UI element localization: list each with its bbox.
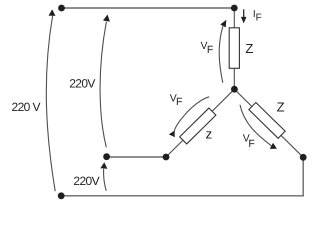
- svg-text:F: F: [176, 96, 182, 108]
- voltage arc VF right phase: [240, 105, 272, 146]
- arrowhead IF: [241, 17, 247, 24]
- wire C to D: [107, 156, 166, 158]
- impedance z2 (left phase): [180, 108, 216, 144]
- voltage arc 220 V outer left: [46, 16, 55, 191]
- svg-text:z: z: [206, 127, 213, 142]
- wire B to Z1: [233, 8, 235, 28]
- svg-text:F: F: [207, 44, 213, 56]
- svg-text:F: F: [248, 138, 254, 150]
- impedance Z3 (right phase): [249, 102, 285, 138]
- node N star point: [231, 86, 238, 93]
- arrowhead 220V middle: [103, 14, 111, 22]
- voltage arc VF top phase: [219, 26, 223, 83]
- impedance Z1 (top phase): [229, 28, 239, 69]
- arrowhead VF left: [169, 131, 175, 138]
- node E right branch end: [300, 154, 307, 161]
- wire N to C: [166, 89, 234, 157]
- wire N to E: [234, 89, 303, 157]
- wire Z1 to node N: [233, 68, 235, 89]
- voltage arc VF left phase: [174, 97, 209, 133]
- node C left branch end: [163, 154, 170, 161]
- node B top-right: [231, 5, 238, 12]
- arrowhead 220 V outer: [48, 9, 55, 16]
- wire E bottom return to F: [61, 157, 303, 196]
- svg-text:220V: 220V: [69, 77, 95, 91]
- arrowhead VF top: [220, 18, 229, 27]
- svg-text:Z: Z: [277, 100, 285, 115]
- voltage arc 220V middle: [100, 22, 106, 148]
- wire top bus A-B: [62, 7, 235, 9]
- svg-text:220V: 220V: [73, 174, 99, 188]
- svg-text:F: F: [256, 13, 262, 24]
- arrowhead 220V bottom: [100, 162, 107, 169]
- node A top-left: [58, 5, 65, 12]
- svg-text:Z: Z: [245, 41, 253, 56]
- voltage arrow 220V bottom: [104, 169, 107, 191]
- node D left terminal: [103, 153, 110, 160]
- node F bottom-left: [58, 192, 65, 199]
- svg-text:220 V: 220 V: [12, 100, 41, 114]
- arrowhead VF right: [270, 143, 279, 152]
- current arrow IF: [243, 9, 245, 17]
